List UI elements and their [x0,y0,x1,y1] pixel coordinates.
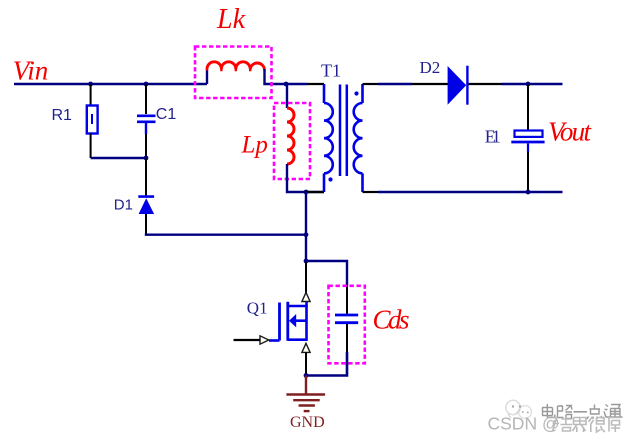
watermark text dian [542,404,555,418]
transistor Q1 NMOS [269,302,307,341]
wire secondary bottom pin [363,191,379,193]
transformer T1 core [340,85,347,177]
svg-text:Vout: Vout [548,116,592,146]
watermark text hen [589,417,606,432]
resistor R1 [87,106,98,134]
watermark text yi [574,411,588,413]
wire D2 to output [502,83,563,85]
svg-text:Vin: Vin [13,55,49,85]
node junction bottom of transformer primary [304,190,309,195]
node junction on Vin rail 2 [144,82,149,87]
wire source stub [305,352,307,375]
box Lk dashed [195,47,272,99]
watermark text tong [604,405,623,418]
svg-text:Cds: Cds [373,304,410,334]
box Lp dashed [274,103,310,179]
wire node to transformer top [286,83,308,85]
diode D2 [448,66,468,105]
svg-text:Lp: Lp [241,132,268,159]
wire Vin input rail [14,83,207,85]
watermark text jie [553,417,573,432]
wire Cds branch bottom [306,352,347,376]
capacitor Cds [335,315,358,323]
wire secondary top to D2 [378,83,412,85]
watermark logo icon [506,400,532,418]
wire primary return vertical [305,192,307,261]
wire D2 cathode pin [469,83,503,85]
svg-text:E1: E1 [485,126,501,146]
wire secondary top pin [363,83,379,85]
wire D2 anode pin [412,83,448,85]
wire C1 bottom pin [145,134,147,158]
wire C1 top pin [145,84,147,114]
capacitor C1 [137,116,156,134]
node junction source GND [304,373,309,378]
transformer polarity dot secondary [354,91,358,95]
wire R1 bottom pin [90,134,92,159]
svg-text:R1: R1 [52,107,73,124]
arrow gate open [260,336,269,344]
wire gate lead [234,339,261,341]
node junction output top [526,82,531,87]
wire Lp upper lead [286,84,288,108]
wire E1 top lead [527,84,529,130]
wire output bottom rail [378,191,563,193]
svg-text:GND: GND [290,414,325,431]
transformer T1 secondary winding [354,84,363,192]
wire E1 bottom lead [527,152,529,192]
svg-text:Lk: Lk [216,4,246,35]
transformer polarity dot primary [328,177,332,181]
arrow drain open [302,292,310,301]
node junction on Vin rail 1 [88,82,93,87]
wire Cds cap bottom lead [346,324,348,352]
wire D1 bottom pin [145,214,147,234]
svg-text:Q1: Q1 [247,299,268,318]
svg-text:CSDN @: CSDN @ [488,414,560,434]
node junction Cds branch [304,259,309,264]
transformer T1 primary winding [324,84,333,192]
node junction D1 rail [304,232,309,237]
diode D1 [138,197,154,214]
wire R1 to C1 bottom link [91,157,146,159]
wire transformer primary bottom pin [306,191,324,193]
watermark text jie2 [573,418,587,433]
wire transformer primary top pin [308,83,325,85]
wire Lk right riser [265,69,287,84]
watermark text dian2 [587,405,603,420]
watermark text hou [608,418,622,433]
svg-text:D2: D2 [420,58,441,77]
arrow source open [302,343,310,352]
node junction Lp top [284,82,289,87]
wire Lk left riser [206,69,208,84]
wire Lp lower lead [287,164,324,192]
wire Cds branch top [306,261,347,286]
node junction R1 C1 D1 [144,156,149,161]
wire D1 top pin [145,158,147,196]
wire D1 clamp rail [146,234,306,235]
node junction output bottom [526,190,531,195]
ground GND symbol [286,376,325,412]
inductor Lk coil [207,62,264,69]
wire Cds cap top lead [346,286,348,314]
svg-text:T1: T1 [321,60,341,80]
wire drain stub [305,261,307,293]
watermark text lu [558,406,573,419]
svg-text:D1: D1 [114,196,133,213]
svg-text:C1: C1 [156,106,177,123]
wire R1 top pin [90,84,92,106]
capacitor E1 electrolytic [511,131,544,153]
box Cds dashed [329,286,365,364]
inductor Lp coil [287,108,294,164]
